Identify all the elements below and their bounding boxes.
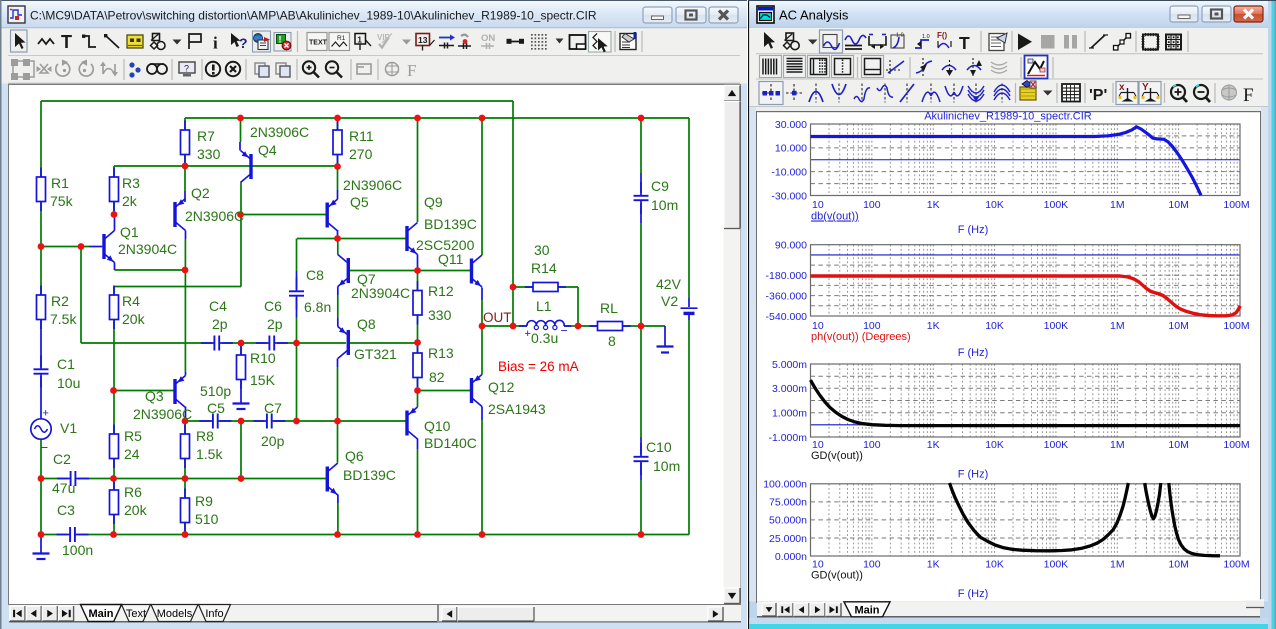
svg-text:TEXT: TEXT — [309, 40, 328, 47]
svg-text:100K: 100K — [1044, 439, 1069, 451]
svg-text:75.000n: 75.000n — [769, 497, 807, 509]
svg-text:R1: R1 — [337, 35, 346, 42]
svg-text:100: 100 — [863, 199, 881, 211]
svg-text:1K: 1K — [927, 320, 940, 332]
svg-text:0.000n: 0.000n — [775, 551, 807, 563]
svg-text:+: + — [525, 328, 531, 340]
svg-text:F (Hz): F (Hz) — [958, 588, 989, 600]
svg-text:R3: R3 — [122, 175, 140, 191]
svg-text:Q3: Q3 — [145, 388, 164, 404]
svg-text:AC Analysis: AC Analysis — [779, 8, 849, 23]
svg-text:R6: R6 — [124, 484, 142, 500]
svg-text:100.000n: 100.000n — [763, 479, 807, 491]
svg-text:C7: C7 — [264, 400, 282, 416]
svg-text:2N3906C: 2N3906C — [343, 177, 402, 193]
svg-text:C6: C6 — [264, 298, 282, 314]
svg-text:10u: 10u — [57, 375, 80, 391]
svg-text:Q9: Q9 — [424, 194, 443, 210]
svg-text:Y: Y — [1142, 82, 1149, 93]
svg-text:100K: 100K — [1044, 199, 1069, 211]
svg-text:10m: 10m — [653, 458, 680, 474]
svg-text:F(): F() — [937, 31, 948, 40]
svg-text:F: F — [407, 61, 416, 80]
svg-text:82: 82 — [429, 369, 445, 385]
svg-text:10K: 10K — [985, 559, 1004, 571]
svg-text:510: 510 — [195, 511, 219, 527]
svg-text:BD139C: BD139C — [424, 216, 477, 232]
svg-text:R1: R1 — [51, 175, 69, 191]
svg-text:!: ! — [279, 35, 282, 45]
svg-text:F: F — [1243, 85, 1254, 106]
svg-text:C3: C3 — [57, 502, 75, 518]
svg-text:F (Hz): F (Hz) — [958, 469, 989, 481]
svg-text:db(v(out)): db(v(out)) — [811, 211, 859, 223]
svg-text:10M: 10M — [1168, 199, 1188, 211]
svg-text:25.000n: 25.000n — [769, 533, 807, 545]
svg-text:10K: 10K — [985, 199, 1004, 211]
svg-text:-540.000: -540.000 — [766, 311, 808, 323]
svg-text:Main: Main — [854, 604, 879, 616]
svg-text:50.000n: 50.000n — [769, 515, 807, 527]
svg-text:R12: R12 — [428, 283, 454, 299]
svg-text:Main: Main — [88, 608, 113, 620]
svg-text:OUT: OUT — [483, 310, 512, 325]
svg-text:Bias = 26 mA: Bias = 26 mA — [498, 359, 579, 374]
svg-text:270: 270 — [349, 146, 373, 162]
svg-text:100K: 100K — [1044, 320, 1069, 332]
svg-text:30: 30 — [534, 242, 550, 258]
svg-text:10M: 10M — [1168, 439, 1188, 451]
svg-text:3.000m: 3.000m — [772, 383, 807, 395]
svg-text:R11: R11 — [349, 128, 374, 144]
svg-text:1M: 1M — [1110, 320, 1125, 332]
svg-text:13: 13 — [418, 35, 428, 45]
svg-text:1.0: 1.0 — [896, 33, 904, 39]
svg-text:R14: R14 — [531, 260, 557, 276]
svg-text:1.000m: 1.000m — [772, 408, 807, 420]
svg-text:100M: 100M — [1223, 559, 1249, 571]
svg-text:1.0: 1.0 — [922, 34, 930, 40]
svg-text:C4: C4 — [209, 298, 227, 314]
svg-text:'P': 'P' — [1089, 87, 1107, 104]
svg-text:6.8n: 6.8n — [304, 299, 331, 315]
svg-text:30.000: 30.000 — [775, 119, 807, 131]
svg-text:24: 24 — [124, 446, 140, 462]
svg-text:BD139C: BD139C — [343, 467, 396, 483]
svg-text:V1: V1 — [60, 420, 77, 436]
svg-text:1K: 1K — [927, 439, 940, 451]
svg-text:0.3u: 0.3u — [531, 330, 558, 346]
svg-text:L1: L1 — [536, 298, 552, 314]
svg-text:100M: 100M — [1223, 320, 1249, 332]
svg-text:1K: 1K — [927, 199, 940, 211]
svg-text:10m: 10m — [651, 197, 678, 213]
svg-text:F (Hz): F (Hz) — [958, 224, 989, 236]
svg-text:-360.000: -360.000 — [766, 290, 808, 302]
svg-text:R2: R2 — [51, 293, 69, 309]
svg-text:R10: R10 — [250, 350, 276, 366]
svg-text:20p: 20p — [261, 433, 285, 449]
svg-text:C9: C9 — [651, 178, 669, 194]
svg-text:T: T — [61, 32, 72, 52]
svg-text:1: 1 — [357, 35, 362, 45]
svg-text:Akulinichev_R1989-10_spectr.CI: Akulinichev_R1989-10_spectr.CIR — [924, 111, 1092, 123]
svg-text:Q4: Q4 — [258, 142, 277, 158]
svg-text:100: 100 — [863, 439, 881, 451]
svg-text:BD140C: BD140C — [424, 435, 477, 451]
svg-text:100M: 100M — [1223, 199, 1249, 211]
svg-text:330: 330 — [428, 307, 452, 323]
svg-text:100K: 100K — [1044, 559, 1069, 571]
svg-text:Q8: Q8 — [357, 316, 376, 332]
svg-text:C5: C5 — [207, 400, 225, 416]
svg-text:100: 100 — [863, 559, 881, 571]
svg-text:2p: 2p — [267, 316, 283, 332]
svg-text:GD(v(out)): GD(v(out)) — [811, 450, 863, 462]
svg-text:10M: 10M — [1168, 559, 1188, 571]
svg-text:Q5: Q5 — [350, 194, 369, 210]
svg-text:i: i — [213, 34, 218, 53]
svg-text:1M: 1M — [1110, 559, 1125, 571]
svg-text:2N3906C: 2N3906C — [133, 406, 192, 422]
svg-text:−: − — [41, 441, 48, 455]
svg-text:C2: C2 — [53, 451, 71, 467]
svg-text:C:\MC9\DATA\Petrov\switching d: C:\MC9\DATA\Petrov\switching distortion\… — [30, 9, 597, 23]
svg-text:RL: RL — [600, 300, 618, 316]
svg-text:Text: Text — [126, 608, 146, 620]
svg-text:−: − — [561, 324, 568, 338]
svg-text:ON: ON — [481, 33, 495, 44]
svg-text:x: x — [1119, 82, 1125, 93]
svg-text:10K: 10K — [985, 320, 1004, 332]
svg-text:1M: 1M — [1110, 439, 1125, 451]
svg-text:2N3906C: 2N3906C — [185, 208, 244, 224]
svg-text:R8: R8 — [196, 428, 214, 444]
svg-text:GT321: GT321 — [354, 346, 397, 362]
svg-text:2N3904C: 2N3904C — [351, 285, 410, 301]
svg-text:GD(v(out)): GD(v(out)) — [811, 570, 863, 582]
svg-text:Info: Info — [205, 608, 223, 620]
svg-text:ph(v(out)) (Degrees): ph(v(out)) (Degrees) — [811, 331, 911, 343]
svg-text:R5: R5 — [124, 428, 142, 444]
svg-text:1M: 1M — [1110, 199, 1125, 211]
svg-text:10.000: 10.000 — [775, 143, 807, 155]
svg-text:42V: 42V — [656, 276, 682, 292]
svg-text:100n: 100n — [62, 542, 93, 558]
svg-text:10: 10 — [812, 199, 824, 211]
svg-text:R7: R7 — [197, 128, 215, 144]
svg-text:?: ? — [239, 35, 248, 51]
svg-text:20k: 20k — [124, 502, 148, 518]
svg-text:75k: 75k — [50, 193, 74, 209]
svg-text:C10: C10 — [646, 439, 672, 455]
svg-text:2k: 2k — [122, 193, 138, 209]
svg-text:1.5k: 1.5k — [196, 446, 223, 462]
svg-text:-1.000m: -1.000m — [768, 432, 807, 444]
svg-text:15K: 15K — [250, 372, 276, 388]
svg-text:T: T — [959, 33, 970, 53]
svg-text:1K: 1K — [927, 559, 940, 571]
svg-text:?: ? — [184, 64, 189, 74]
svg-text:-10.000: -10.000 — [771, 166, 807, 178]
svg-text:20k: 20k — [122, 311, 146, 327]
svg-text:Q10: Q10 — [424, 418, 451, 434]
svg-text:2N3906C: 2N3906C — [250, 124, 309, 140]
svg-text:R9: R9 — [195, 493, 213, 509]
svg-text:-30.000: -30.000 — [771, 190, 807, 202]
svg-text:R4: R4 — [122, 293, 140, 309]
svg-text:47u: 47u — [52, 480, 75, 496]
svg-text:7.5k: 7.5k — [50, 311, 77, 327]
svg-text:10K: 10K — [985, 439, 1004, 451]
svg-text:Q12: Q12 — [488, 379, 515, 395]
svg-text:2N3904C: 2N3904C — [118, 241, 177, 257]
svg-text:+: + — [43, 408, 49, 420]
svg-text:R13: R13 — [428, 345, 454, 361]
svg-text:5.000m: 5.000m — [772, 359, 807, 371]
svg-text:510p: 510p — [200, 383, 231, 399]
svg-text:330: 330 — [197, 146, 221, 162]
svg-text:C8: C8 — [306, 267, 324, 283]
svg-text:C1: C1 — [57, 356, 75, 372]
svg-text:Q6: Q6 — [345, 448, 364, 464]
svg-text:F (Hz): F (Hz) — [958, 347, 989, 359]
svg-text:2p: 2p — [212, 316, 228, 332]
svg-text:Models: Models — [157, 608, 193, 620]
svg-text:90.000: 90.000 — [775, 240, 807, 252]
svg-text:Q2: Q2 — [191, 185, 210, 201]
svg-text:Q11: Q11 — [438, 251, 464, 267]
svg-text:Q1: Q1 — [120, 224, 139, 240]
svg-text:100M: 100M — [1223, 439, 1249, 451]
svg-text:10M: 10M — [1168, 320, 1188, 332]
svg-text:8: 8 — [608, 333, 616, 349]
svg-text:-180.000: -180.000 — [766, 270, 808, 282]
svg-text:V2: V2 — [661, 293, 678, 309]
svg-text:2SA1943: 2SA1943 — [488, 401, 546, 417]
